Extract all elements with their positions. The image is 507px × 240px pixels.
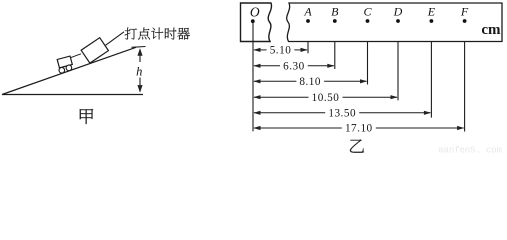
svg-text:5.10: 5.10 (270, 45, 292, 57)
乙 caption (350, 140, 364, 153)
incline ground line (2, 94, 143, 96)
dimension 13.50 O-E (253, 108, 431, 120)
paper tape between cart and timer (71, 54, 82, 58)
dot D (396, 19, 400, 23)
svg-text:h: h (136, 64, 142, 78)
extension line below C (367, 42, 369, 85)
extension line below E (430, 42, 432, 118)
svg-text:8.10: 8.10 (299, 76, 321, 88)
svg-text:10.50: 10.50 (312, 92, 340, 104)
dimension 17.10 O-F (253, 123, 464, 135)
cart wheel left (59, 68, 65, 74)
dot A (306, 19, 310, 23)
tape main piece with torn left edge (287, 3, 502, 42)
svg-text:E: E (427, 4, 436, 18)
dimension 5.10 O-A (253, 45, 307, 57)
svg-text:B: B (331, 4, 339, 18)
leader line to label (106, 32, 125, 46)
dot E (430, 19, 434, 23)
cart body (57, 56, 72, 68)
dot B (333, 19, 337, 23)
tape left fragment with torn edge (241, 3, 272, 42)
incline hypotenuse (2, 47, 136, 94)
extension line below F (464, 42, 466, 132)
dot C (366, 19, 370, 23)
svg-text:D: D (393, 4, 403, 18)
svg-text:17.10: 17.10 (345, 123, 373, 135)
dimension 6.30 O-B (253, 61, 334, 73)
svg-text:A: A (303, 4, 312, 18)
svg-text:6.30: 6.30 (283, 61, 305, 73)
extension line below D (397, 42, 399, 101)
timer box U (打点计时器) (81, 38, 108, 63)
dot F (463, 19, 467, 23)
svg-text:O: O (250, 4, 260, 19)
dot O (251, 19, 255, 23)
svg-text:C: C (363, 4, 372, 18)
extension line below A (307, 42, 309, 54)
dimension 8.10 O-C (253, 76, 367, 88)
h dimension arrow (137, 48, 142, 92)
label 打点计时器 (125, 28, 190, 40)
svg-text:cm: cm (481, 22, 501, 38)
O extension line (252, 21, 254, 131)
svg-text:F: F (460, 4, 469, 18)
extension line below B (334, 42, 336, 70)
甲 caption (80, 109, 93, 124)
dimension 10.50 O-D (253, 92, 397, 104)
svg-text:manfen5. com: manfen5. com (439, 146, 502, 155)
apex tick (132, 46, 146, 49)
cart wheel right (66, 65, 72, 71)
svg-text:13.50: 13.50 (328, 108, 356, 120)
